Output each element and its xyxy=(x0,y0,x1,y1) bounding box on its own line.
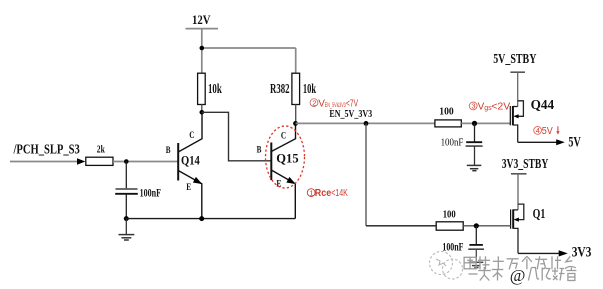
resistor 100 bottom body xyxy=(436,222,463,230)
capacitor C 100nF left pin top xyxy=(125,162,127,190)
svg-text:<2V: <2V xyxy=(491,102,510,113)
wire R382 top pin xyxy=(295,48,297,74)
resistor 10k left body xyxy=(198,73,206,104)
svg-text:5V_STBY: 5V_STBY xyxy=(493,52,536,67)
svg-text:3V3_STBY: 3V3_STBY xyxy=(502,157,549,172)
transistor Q44 drain stub xyxy=(513,106,518,108)
wire EN_5V_3V3 net xyxy=(296,122,435,124)
annotation 1 circled digit xyxy=(307,188,315,197)
transistor Q15 emitter xyxy=(271,170,295,219)
svg-text:5V: 5V xyxy=(568,135,581,151)
svg-text:100nF: 100nF xyxy=(441,138,464,149)
svg-text:1: 1 xyxy=(309,188,313,197)
svg-text:/PCH_SLP_S3: /PCH_SLP_S3 xyxy=(13,141,80,156)
svg-text:EN_5V_3V3: EN_5V_3V3 xyxy=(329,109,372,120)
svg-text:3V3: 3V3 xyxy=(572,245,592,261)
transistor Q14 base bar xyxy=(177,143,179,181)
svg-text:E: E xyxy=(276,179,281,189)
svg-text:100nF: 100nF xyxy=(442,242,463,254)
svg-text:3: 3 xyxy=(471,102,475,111)
wire 12V vertical xyxy=(201,29,203,74)
ground left bars xyxy=(119,234,135,236)
wire 2k to Q14 base xyxy=(113,161,178,163)
node junction Q14 emitter rail xyxy=(199,216,204,221)
watermark logo dashed circles xyxy=(430,252,463,280)
node junction below 10k xyxy=(200,110,205,115)
wire bottom rail emitters xyxy=(126,218,295,220)
svg-text:10k: 10k xyxy=(208,81,222,96)
power 3V3_STBY bar xyxy=(511,173,527,175)
ground left stub xyxy=(125,219,127,235)
transistor Q44 bulk staple xyxy=(518,101,524,117)
svg-text:Rce: Rce xyxy=(315,188,332,199)
watermark text line1 (CJK simulated) xyxy=(464,256,576,269)
transistor Q15 base bar xyxy=(270,143,272,181)
wire input PCH_SLP_S3 xyxy=(10,161,79,163)
svg-text:B: B xyxy=(257,145,262,155)
node junction cap/ground/rail xyxy=(124,216,129,221)
wire to bottom 100 resistor xyxy=(366,225,436,227)
power 5V_STBY bar xyxy=(510,71,525,73)
capacitor 100nF top-right plates xyxy=(466,141,482,143)
node junction gate 3V3 branch xyxy=(474,223,479,228)
node junction gate 5V branch xyxy=(472,121,477,126)
wire 100 top to gate xyxy=(461,122,510,124)
wire 100 bottom to gate xyxy=(463,225,510,227)
svg-text:B: B xyxy=(166,146,171,156)
wire R382 bottom pin xyxy=(295,105,297,124)
transistor Q44 bulk arrow xyxy=(513,114,518,118)
transistor Q44 gate bar xyxy=(509,106,511,125)
annotation 2 text V EN_5V&3V3 <7V xyxy=(318,98,358,109)
annotation 4 down arrow xyxy=(556,126,559,134)
ground 3V3 branch stub xyxy=(475,249,477,262)
ground 5V branch stub xyxy=(474,146,476,165)
annotation 3 text Vgs<2V xyxy=(478,102,511,113)
annotation 4 circled digit xyxy=(534,126,542,135)
ground 3V3 branch bars xyxy=(469,261,484,263)
transistor Q44 channel bar xyxy=(512,106,514,125)
capacitor 100nF bottom plates xyxy=(469,244,483,246)
svg-text:Q44: Q44 xyxy=(531,98,555,113)
svg-text:@: @ xyxy=(510,266,526,285)
watermark text line2 (CJK simulated) with @ xyxy=(469,267,577,281)
annotation 2 circled digit xyxy=(310,98,318,107)
svg-text:E: E xyxy=(186,183,191,193)
transistor Q14 emitter xyxy=(178,171,202,219)
capacitor 100nF bottom pin xyxy=(475,226,477,245)
wire Q14 collector to Q15 base xyxy=(202,112,271,161)
node junction after 2k xyxy=(124,159,129,164)
node junction EN branch xyxy=(364,121,369,126)
transistor Q1 channel bar xyxy=(512,209,514,228)
svg-text:<7V: <7V xyxy=(346,98,358,109)
wire 3V3 output xyxy=(518,252,560,254)
output arrow 3V3 xyxy=(559,250,568,256)
svg-text:2: 2 xyxy=(312,98,316,107)
transistor Q1 source stub xyxy=(513,228,518,253)
svg-text:Q14: Q14 xyxy=(181,152,200,167)
wire Q1 drain lead xyxy=(517,174,519,210)
ground 5V branch bars xyxy=(467,164,482,166)
node junction Q15 collector / R382 / EN net xyxy=(293,121,298,126)
red highlight ellipse around Q15 xyxy=(266,126,305,188)
transistor Q1 bulk arrow xyxy=(514,218,519,222)
resistor R382 body xyxy=(292,73,300,104)
svg-text:Q1: Q1 xyxy=(533,207,546,222)
capacitor 100nF top-right pin xyxy=(474,123,476,142)
transistor Q15 emitter arrow xyxy=(286,177,295,184)
wire Q44 drain lead xyxy=(517,72,519,106)
power 12V bar xyxy=(186,28,219,30)
transistor Q1 gate bar xyxy=(510,209,512,228)
annotation 3 circled digit xyxy=(469,102,477,111)
svg-text:<14K: <14K xyxy=(331,188,348,199)
svg-text:4: 4 xyxy=(536,126,540,135)
capacitor C 100nF left plates xyxy=(116,188,138,190)
transistor Q14 collector xyxy=(178,112,202,152)
transistor Q14 emitter arrow xyxy=(193,177,202,184)
svg-text:12V: 12V xyxy=(192,13,211,27)
wire 12V horizontal to R382 xyxy=(202,47,296,49)
transistor Q1 bulk staple xyxy=(518,204,524,220)
resistor 100 top body xyxy=(435,120,461,127)
svg-text:100: 100 xyxy=(439,106,453,117)
transistor Q1 drain stub xyxy=(513,209,518,211)
svg-text:10k: 10k xyxy=(303,81,317,96)
svg-text:C: C xyxy=(189,131,194,141)
svg-text:C: C xyxy=(281,132,286,142)
input arrow xyxy=(77,158,85,165)
transistor Q15 collector xyxy=(271,123,295,151)
wire EN branch down to 3V3 gate path xyxy=(365,123,367,225)
svg-text:100nF: 100nF xyxy=(140,185,161,199)
svg-text:Q15: Q15 xyxy=(276,151,299,166)
wire 5V output xyxy=(518,141,557,143)
node junction 12V branch xyxy=(200,46,205,51)
resistor 2k body xyxy=(86,157,113,165)
wire 10k bottom pin xyxy=(201,105,203,113)
capacitor C 100nF left pin bottom xyxy=(125,194,127,219)
svg-text:R382: R382 xyxy=(270,81,290,96)
svg-text:5V: 5V xyxy=(542,126,553,137)
svg-text:100: 100 xyxy=(443,210,456,221)
output arrow 5V xyxy=(556,139,565,145)
svg-text:EN_5V&3V3: EN_5V&3V3 xyxy=(325,102,346,109)
transistor Q44 source stub xyxy=(513,125,518,142)
svg-text:2k: 2k xyxy=(97,145,105,156)
